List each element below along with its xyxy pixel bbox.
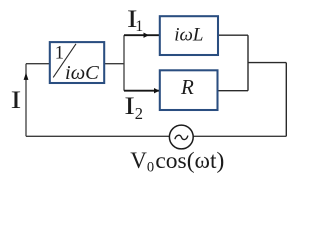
capacitor box 1/iwC [50,42,104,83]
sine symbol inside source [175,135,188,139]
AC source V0 [169,125,193,149]
svg-text:V0cos(ωt): V0cos(ωt) [130,148,224,173]
wire: source to bottom right [193,135,286,137]
svg-text:iωL: iωL [174,25,203,46]
wire: branch I2 into resistor [124,90,160,92]
wire: branch I1 into inductor [124,34,160,36]
label I [11,86,22,114]
wire: bottom left to source [26,135,170,137]
svg-text:iωC: iωC [65,62,99,84]
svg-text:2: 2 [135,104,143,123]
wire: junction vertical [123,35,125,90]
svg-text:1: 1 [55,44,64,64]
arrow: current I2 (right) [154,88,159,93]
wire: left horizontal into capacitor box [26,63,50,65]
wire: capacitor output to junction [104,63,124,65]
wire: right bus vertical [247,35,249,90]
arrow: current I (up) [24,73,29,80]
wire: bus tap to right edge [248,62,286,64]
arrow: current I1 (right) [144,33,149,38]
svg-text:I: I [124,92,135,120]
wire: resistor output [218,90,249,92]
svg-text:I: I [11,86,22,114]
wire: inductor output [218,34,248,36]
wire: left vertical branch [25,64,27,137]
label I2 [124,92,135,120]
svg-text:1: 1 [135,18,143,35]
resistor box R [160,70,218,110]
wire: right vertical down [285,63,287,137]
label I1 [127,5,138,33]
svg-text:R: R [180,75,194,99]
inductor box iwL [160,16,218,55]
